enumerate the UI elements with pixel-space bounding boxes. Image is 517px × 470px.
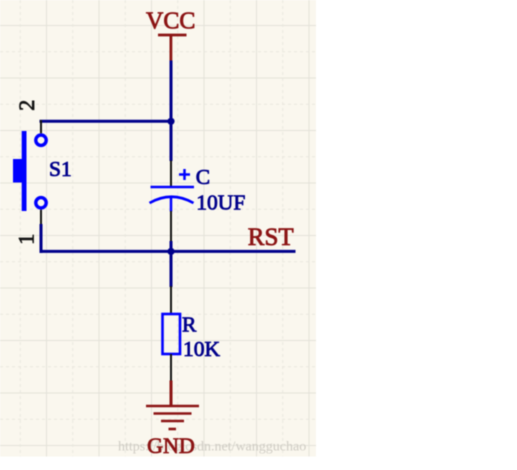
pin number 2 <box>14 100 39 111</box>
wire VCC to node A <box>170 61 173 123</box>
power symbol VCC <box>146 9 195 62</box>
svg-text:C: C <box>196 165 210 189</box>
svg-text:S1: S1 <box>49 157 72 181</box>
wire capacitor to node B <box>170 241 173 251</box>
node A junction <box>167 118 174 125</box>
svg-text:10K: 10K <box>183 337 221 361</box>
watermark <box>118 440 306 455</box>
value 10UF <box>196 191 245 215</box>
svg-text:RST: RST <box>248 224 294 251</box>
ground GND <box>146 381 199 459</box>
designator C <box>196 165 210 189</box>
svg-text:VCC: VCC <box>146 9 195 35</box>
switch S1 <box>13 120 46 224</box>
wire node B to resistor <box>170 251 173 287</box>
resistor R <box>163 286 181 381</box>
svg-text:2: 2 <box>14 100 39 111</box>
wire node A down to capacitor <box>170 121 173 161</box>
designator R <box>182 313 197 337</box>
svg-text:10UF: 10UF <box>196 191 245 215</box>
wire RST net <box>40 250 296 253</box>
svg-text:1: 1 <box>14 234 39 245</box>
designator S1 <box>49 157 72 181</box>
svg-text:R: R <box>182 313 197 337</box>
wire switch pin 1 down <box>40 224 43 253</box>
svg-text:GND: GND <box>147 433 195 458</box>
net label RST <box>248 224 294 251</box>
node B junction <box>167 248 174 255</box>
wire node A to switch pin 2 <box>40 120 172 123</box>
capacitor C <box>150 161 195 242</box>
pin number 1 <box>14 234 39 245</box>
value 10K <box>183 337 221 361</box>
